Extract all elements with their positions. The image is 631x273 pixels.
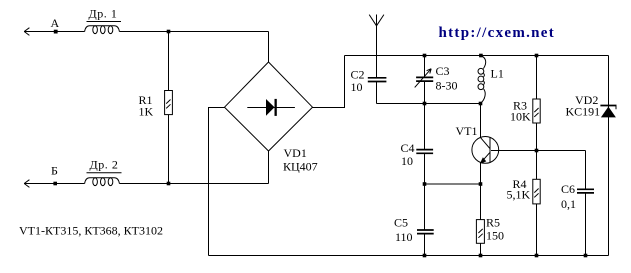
svg-text:А: А: [51, 16, 60, 30]
wire: bus C2 to L1: [377, 103, 481, 105]
svg-text:VT1: VT1: [456, 124, 478, 138]
junction dot base / R3 / R4: [535, 149, 539, 153]
resistor R4: [533, 151, 540, 256]
bridge rectifier VD1 diamond: [225, 62, 313, 151]
capacitor C4: [416, 150, 433, 230]
terminal arrow A: [24, 28, 29, 36]
capacitor C6: [577, 151, 594, 256]
capacitor C5: [417, 230, 434, 256]
svg-text:VT1-КТ315, КТ368, КТ3102: VT1-КТ315, КТ368, КТ3102: [19, 224, 163, 238]
resistor R3: [533, 56, 540, 151]
junction dot RF rail / C3: [423, 54, 427, 58]
svg-text:1K: 1K: [139, 105, 154, 119]
junction dot RF rail / L1: [479, 54, 483, 58]
wire: bridge bottom to Б rail: [268, 151, 270, 184]
junction dot ground / C5: [423, 254, 427, 258]
svg-text:R5: R5: [486, 216, 500, 230]
svg-text:10K: 10K: [510, 110, 531, 124]
junction dot RF rail / R3: [535, 54, 539, 58]
svg-text:KC191: KC191: [566, 105, 601, 119]
wire: right edge VD2 branch: [608, 56, 610, 256]
svg-text:0,1: 0,1: [561, 197, 576, 211]
svg-text:110: 110: [395, 230, 413, 244]
node Б dot: [53, 182, 57, 186]
junction dot bus / C3: [423, 102, 427, 106]
svg-text:Б: Б: [51, 164, 58, 178]
resistor R5: [476, 220, 484, 256]
svg-text:C4: C4: [401, 141, 415, 155]
svg-text:C5: C5: [394, 216, 408, 230]
capacitor C2: [368, 78, 387, 104]
wire: A rail drop to bridge top: [268, 32, 270, 63]
inductor Др.1: [85, 22, 121, 34]
terminal arrow Б: [24, 180, 29, 188]
svg-text:150: 150: [486, 229, 504, 243]
junction dot Б rail / R1: [167, 182, 171, 186]
svg-text:L1: L1: [491, 67, 504, 81]
wire: A rail left: [24, 31, 85, 33]
svg-text:C3: C3: [436, 64, 450, 78]
junction dot ground / C6: [584, 254, 588, 258]
junction dot ground / R4: [535, 254, 539, 258]
junction dot link right: [479, 182, 483, 186]
wire: Б rail left: [24, 183, 85, 185]
transistor VT1: [472, 104, 499, 220]
resistor R1: [165, 32, 173, 184]
wire: Б rail right: [119, 183, 268, 185]
svg-text:КЦ407: КЦ407: [283, 160, 318, 174]
diode symbol inside VD1: [247, 99, 295, 116]
svg-text:10: 10: [401, 154, 413, 168]
wire: link C4/C5 node to emitter node: [425, 183, 481, 185]
junction dot link left: [423, 182, 427, 186]
wire: A rail right: [119, 31, 268, 33]
wire: bridge right corner up to RF rail: [313, 56, 345, 108]
inductor Др.2: [85, 173, 122, 186]
svg-text:http://cxem.net: http://cxem.net: [439, 25, 556, 41]
antenna W1: [369, 15, 384, 78]
junction dot A rail / R1: [167, 30, 171, 34]
svg-text:10: 10: [351, 80, 363, 94]
svg-text:Др. 1: Др. 1: [89, 7, 118, 21]
node A dot: [54, 30, 58, 34]
svg-text:C6: C6: [561, 182, 575, 196]
inductor L1: [478, 56, 486, 104]
svg-text:VD1: VD1: [284, 146, 307, 160]
wire: bridge left corner to ground rail: [209, 108, 225, 256]
wire: base lead VT1 to C6: [491, 150, 586, 152]
junction dot bus / L1 / VT1 collector: [479, 102, 483, 106]
svg-text:5,1K: 5,1K: [507, 188, 531, 202]
wire: bottom ground rail: [209, 255, 609, 257]
zener diode VD2: [600, 106, 616, 118]
wire: RF top rail: [345, 55, 609, 57]
junction dot ground / R5: [479, 254, 483, 258]
svg-text:Др. 2: Др. 2: [90, 158, 119, 172]
capacitor C3 variable: [415, 56, 434, 150]
svg-text:8-30: 8-30: [436, 79, 458, 93]
